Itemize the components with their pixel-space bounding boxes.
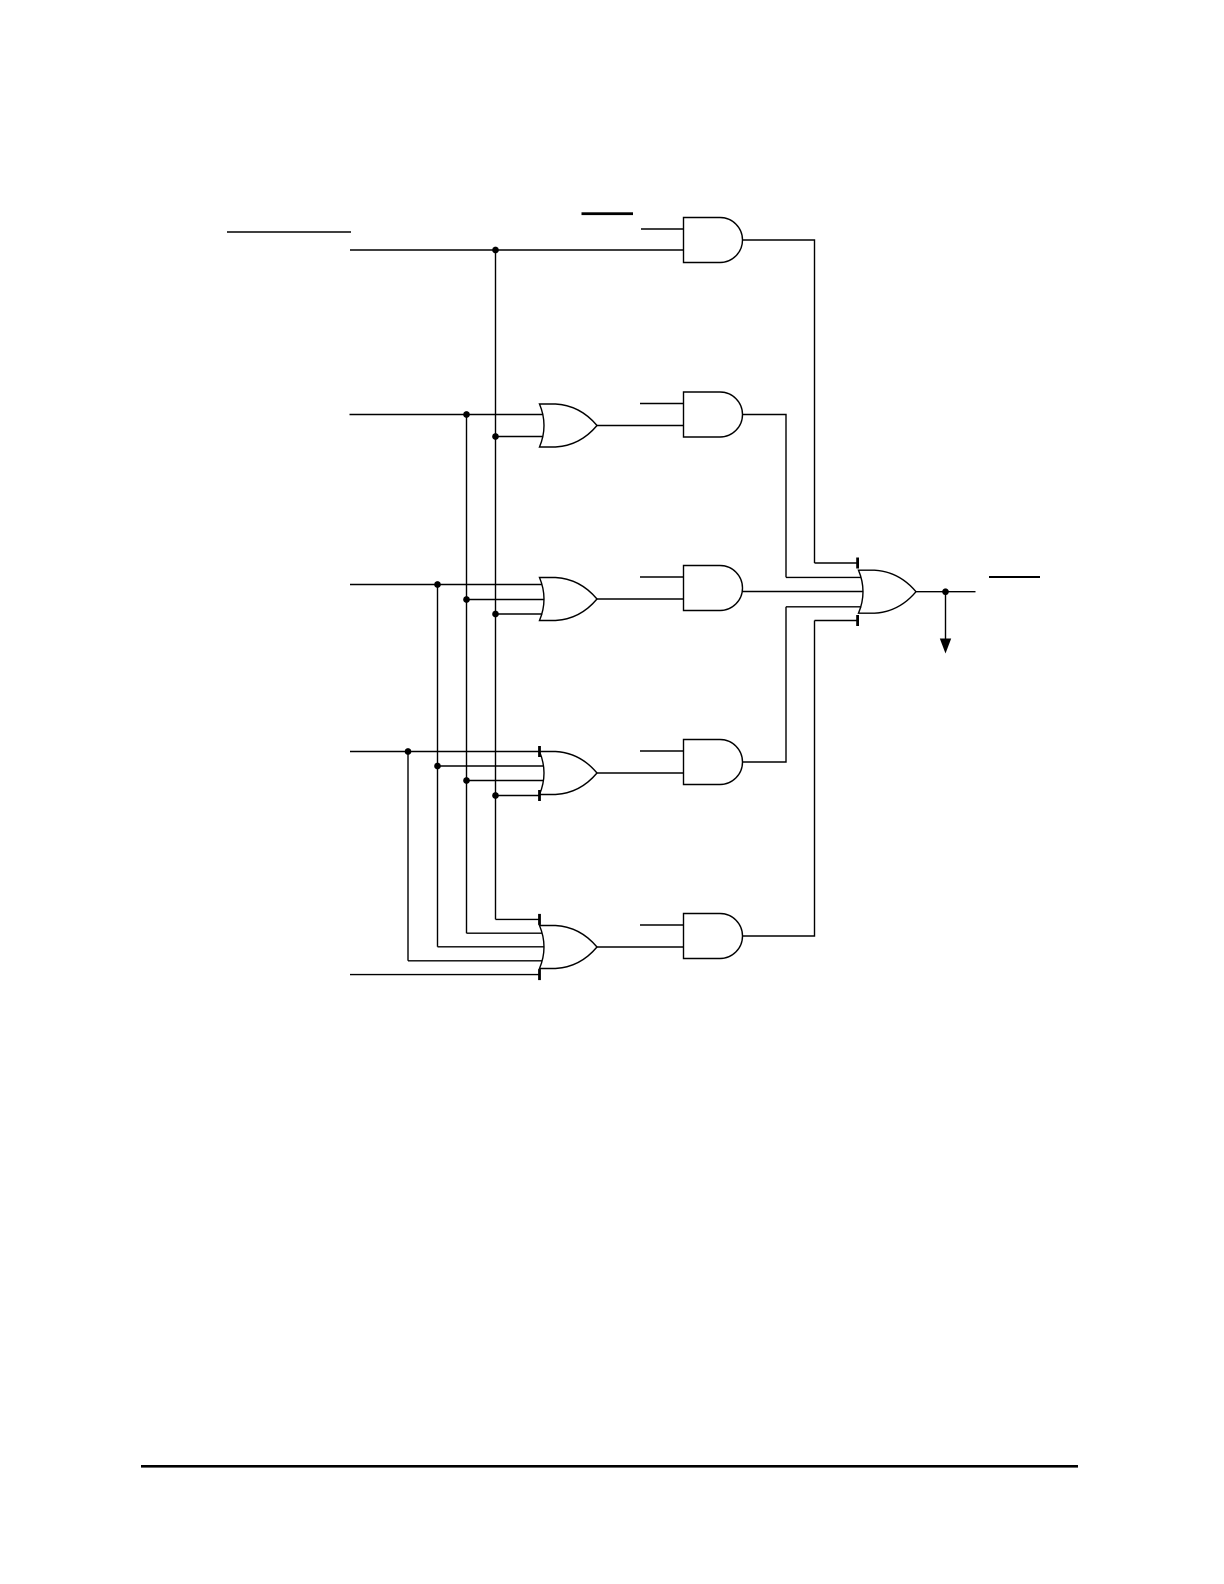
wire: G5 top input stub [640, 576, 684, 578]
wire: row-1 input A to AND gate G1 [350, 249, 684, 251]
and-gate G7 [684, 740, 743, 785]
or-gate G4 (3-input) [540, 578, 598, 621]
wire: G5 output to OR gate G10 middle input [742, 591, 864, 593]
wire: output branch down to arrow [945, 592, 947, 639]
wire: V4 elbow into G10 input 5 [815, 620, 859, 622]
node J2: junction on row-2 input at bus B2 [463, 411, 470, 418]
wire: bus B4 vertical (x=408) [407, 752, 409, 961]
or-gate G10 (5-input output gate) [859, 570, 917, 613]
pin tick: G6 top input [538, 746, 541, 757]
wire: row-3 input C to OR gate G4 [350, 584, 543, 586]
wire: G1 top input stub (pin 1) [641, 228, 684, 230]
wire: G2 output to AND gate G3 [597, 425, 684, 427]
wire: bus B1 elbow to OR gate G8 top input [496, 918, 541, 920]
pin tick: G10 input 1 [856, 558, 859, 569]
pin tick: G8 bottom input [538, 969, 541, 980]
wire: G3 top input stub [640, 403, 684, 405]
wire: bus B1 vertical (x=495.5) [495, 250, 497, 919]
wire: G6 output to AND gate G7 [597, 772, 684, 774]
node J11: junction on output [942, 588, 949, 595]
wire: V1 elbow into G10 input 1 [815, 562, 859, 564]
and-gate G3 [684, 392, 743, 437]
wire: spur from bus B2 to G4 middle input [467, 599, 545, 601]
wire: G4 output to AND gate G5 [597, 598, 684, 600]
wire: row-4 input D to OR gate G6 [350, 751, 540, 753]
wire: V2 elbow into G10 input 2 [786, 576, 862, 578]
wire: bus B3 elbow to G8 input 3 [438, 946, 545, 948]
wire: G3 output to right vertical V2 [743, 415, 787, 578]
and-gate G9 [684, 914, 743, 959]
or-gate G2 [540, 404, 598, 447]
wire: V3 elbow into G10 input 4 [786, 606, 862, 608]
node J7: junction on row-4 input at bus B4 [405, 748, 412, 755]
wire: row-2 input B to OR gate G2 [350, 414, 544, 416]
pin tick: G10 input 5 [856, 615, 859, 626]
wire: G8 output to AND gate G9 [597, 946, 684, 948]
wire: spur from bus B3 to G6 input 2 [438, 765, 545, 767]
wire: G9 output to right vertical V4 [743, 621, 815, 937]
or-gate G6 (4-input) [540, 752, 598, 795]
node J9: junction on bus B2 feeding G6 [463, 777, 470, 784]
node J6: junction on bus B1 feeding G4 [492, 611, 499, 618]
node J3: junction on bus B1 feeding G2 [492, 433, 499, 440]
wire: bus B4 elbow to G8 input 4 [408, 960, 543, 962]
footer rule [141, 1465, 1078, 1468]
wire: G7 top input stub [640, 750, 684, 752]
wire: spur from bus B1 to G6 input 4 [496, 795, 541, 797]
and-gate G1 [684, 218, 743, 263]
node J1: junction on row-1 input at bus B1 [492, 247, 499, 254]
pin tick: G6 bottom input [538, 790, 541, 801]
wire: bus B2 elbow to G8 input 2 [467, 932, 543, 934]
wire: G7 output to right vertical V3 [743, 607, 787, 762]
wire: row-1 signal name underline segment [227, 231, 351, 233]
wire: spur from bus B1 to G4 bottom input [496, 613, 543, 615]
wire: G10 output [915, 591, 976, 593]
wire: spur from bus B2 to G6 input 3 [467, 780, 545, 782]
label overline above output [989, 576, 1040, 578]
and-gate G5 [684, 566, 743, 611]
node J5: junction on bus B2 feeding G4 [463, 596, 470, 603]
node J8: junction on bus B3 feeding G6 [434, 763, 441, 770]
node J4: junction on row-3 input at bus B3 [434, 581, 441, 588]
wire: bus B2 vertical (x=466.5) [466, 415, 468, 934]
wire: G1 output to right vertical V1 [743, 240, 815, 563]
node J10: junction on bus B1 feeding G6 [492, 792, 499, 799]
wire: row-5 input E to G8 bottom input [350, 974, 540, 976]
wire: G9 top input stub [640, 924, 684, 926]
or-gate G8 (5-input) [540, 926, 598, 969]
arrowhead on output branch [940, 639, 951, 654]
pin tick: G8 top input [538, 914, 541, 925]
wire: bus B3 vertical (x=437.5) [437, 585, 439, 947]
wire: spur from bus B1 to G2 lower input [496, 436, 544, 438]
label overline above gate G1 input [582, 212, 634, 215]
